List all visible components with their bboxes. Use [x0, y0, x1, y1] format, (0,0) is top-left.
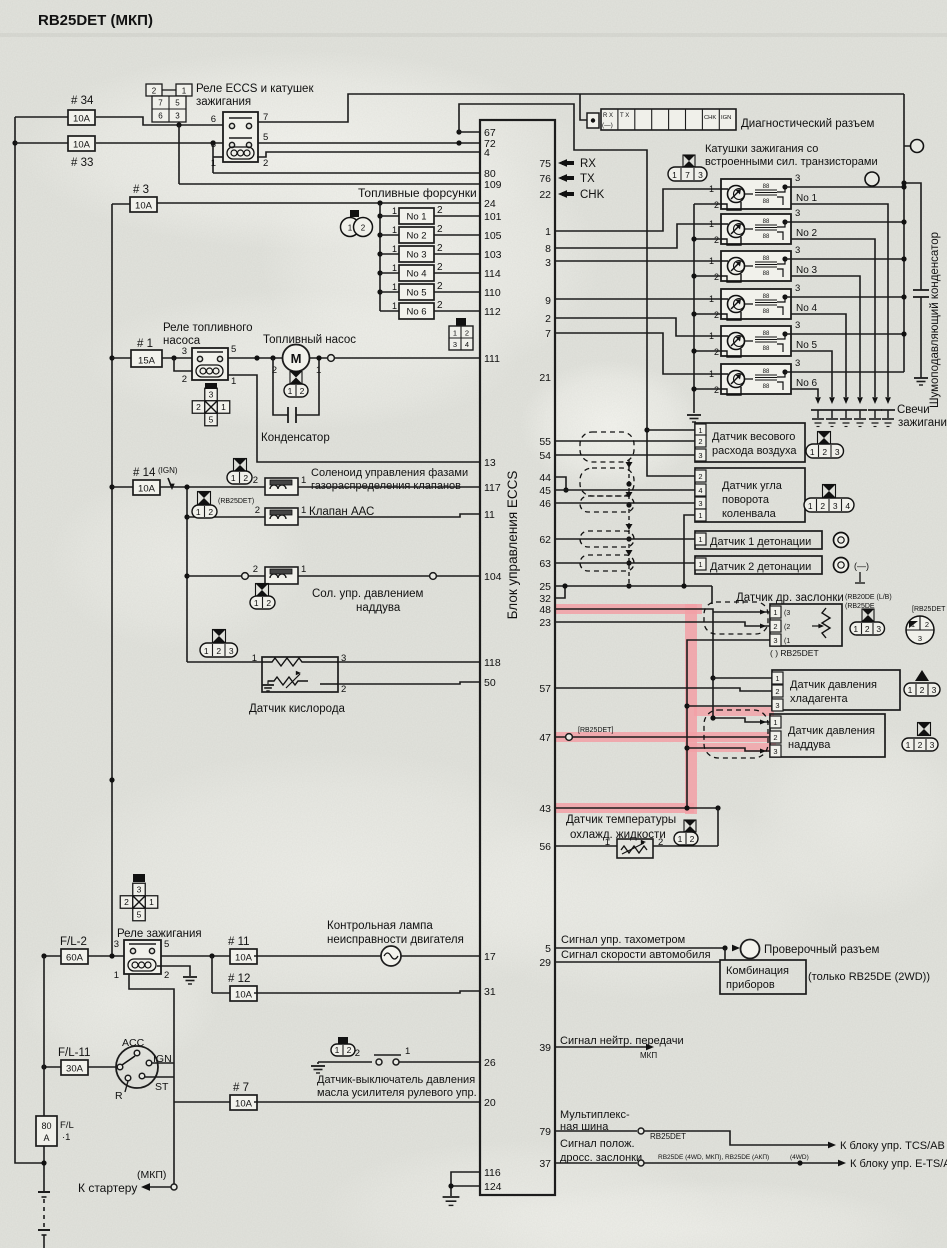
- wire injector No5 to ECU pin 110: [434, 291, 480, 293]
- svg-text:# 11: # 11: [228, 936, 250, 948]
- svg-text:Соленоид управления фазами: Соленоид управления фазами: [311, 467, 468, 479]
- connector icon injector harness: [350, 210, 359, 217]
- svg-text:2: 2: [437, 262, 443, 273]
- wire relay pin7 to top supply bus: [258, 94, 904, 122]
- ignition coil No5 with power transistor: [721, 326, 791, 356]
- svg-text:75: 75: [539, 158, 551, 170]
- wire relay K3 coil to ground: [157, 966, 190, 976]
- connector icon fuel pump relay pinout: [205, 388, 218, 401]
- svg-text:1: 1: [911, 620, 915, 629]
- svg-text:масла усилителя рулевого упр.: масла усилителя рулевого упр.: [317, 1087, 477, 1099]
- svg-text:МКП: МКП: [640, 1051, 657, 1060]
- inline ring connector on supply: [904, 145, 911, 147]
- injector No1: [380, 215, 399, 217]
- svg-text:2: 2: [243, 473, 248, 483]
- wire fuse #11 to MIL lamp: [254, 955, 381, 957]
- wire pin109 row: [179, 183, 480, 185]
- svg-text:3: 3: [932, 685, 937, 695]
- inline ring connector coil bus: [865, 172, 879, 186]
- switch Датчик-выключатель давления масла: [318, 1061, 372, 1063]
- node ECU ground joint: [448, 1183, 453, 1188]
- wire coil No1 pin3 to supply bus: [785, 186, 904, 188]
- svg-text:Свечи: Свечи: [897, 404, 930, 416]
- svg-text:1: 1: [301, 475, 306, 486]
- svg-text:3: 3: [918, 634, 922, 643]
- svg-text:RB25DET: RB25DET: [650, 1132, 686, 1141]
- svg-text:RB25DET (МКП): RB25DET (МКП): [38, 12, 153, 29]
- highlight boost sensor pin3 branch (pink): [686, 743, 776, 752]
- battery: [38, 1191, 50, 1193]
- node injector No4 supply junction: [377, 270, 382, 275]
- relay K1 Реле ECCS и катушек зажигания: [223, 112, 258, 162]
- wire coil No2 pin3 to supply bus: [785, 221, 904, 223]
- fuse #34: [68, 110, 95, 125]
- svg-text:Контрольная лампа: Контрольная лампа: [327, 920, 433, 932]
- svg-text:CHK: CHK: [580, 189, 605, 201]
- svg-text:Проверочный разъем: Проверочный разъем: [764, 944, 879, 956]
- svg-text:1: 1: [196, 507, 201, 517]
- svg-text:62: 62: [539, 534, 551, 546]
- svg-text:57: 57: [539, 683, 551, 695]
- wire pin80 row: [213, 172, 480, 174]
- svg-text:5: 5: [231, 344, 236, 355]
- svg-text:3: 3: [795, 358, 800, 369]
- wire coil No5 pin2 to ground bus: [694, 350, 721, 352]
- svg-text:1: 1: [149, 897, 154, 907]
- wire TPS pin1 feed: [713, 611, 770, 613]
- svg-text:117: 117: [484, 482, 501, 494]
- svg-text:2: 2: [255, 505, 260, 516]
- svg-text:зажигания: зажигания: [196, 96, 251, 108]
- svg-text:Датчик давления: Датчик давления: [790, 679, 877, 691]
- svg-text:3: 3: [698, 170, 703, 180]
- connector icon crank sensor: [823, 485, 836, 498]
- svg-text:5: 5: [263, 132, 268, 143]
- svg-text:114: 114: [484, 268, 501, 280]
- svg-text:54: 54: [539, 450, 551, 462]
- svg-text:30A: 30A: [66, 1063, 84, 1074]
- supply bus vertical to coils: [903, 94, 905, 372]
- node 4WD tap: [797, 1160, 802, 1165]
- svg-text:No 2: No 2: [796, 228, 818, 239]
- svg-text:TX: TX: [580, 173, 595, 185]
- wire F/L-2 to ignition relay: [88, 955, 124, 957]
- svg-text:(только RB25DE (2WD)): (только RB25DE (2WD)): [808, 971, 930, 983]
- sensor ground bus (TPS pin3 down): [687, 640, 770, 808]
- svg-text:1: 1: [908, 685, 913, 695]
- svg-text:2: 2: [437, 243, 443, 254]
- connector icon refrigerant sensor: [915, 670, 929, 681]
- svg-text:Шумоподавляющий конденсатор: Шумоподавляющий конденсатор: [929, 232, 941, 408]
- svg-text:неисправности двигателя: неисправности двигателя: [327, 934, 464, 946]
- svg-text:10A: 10A: [235, 989, 253, 1000]
- svg-text:No 4: No 4: [796, 303, 818, 314]
- svg-text:1: 1: [231, 473, 236, 483]
- highlight boost sensor pin1 branch (pink): [694, 707, 774, 716]
- svg-text:2: 2: [822, 447, 827, 457]
- svg-text:1: 1: [709, 219, 714, 229]
- svg-text:10A: 10A: [73, 139, 91, 150]
- svg-text:1: 1: [698, 426, 702, 435]
- svg-text:1: 1: [545, 226, 551, 238]
- svg-text:No 6: No 6: [796, 378, 818, 389]
- connector inline boost solenoid: [242, 573, 249, 580]
- capacitor C1 across pump motor: [273, 358, 288, 415]
- relay K2 coil: [196, 365, 223, 377]
- svg-text:88: 88: [763, 199, 770, 205]
- wire to fuel pump relay coil pin2: [174, 358, 192, 371]
- svg-text:1: 1: [709, 184, 714, 194]
- svg-text:2: 2: [124, 897, 129, 907]
- node junction #33 feed on left rail: [12, 140, 17, 145]
- connector icon VTC solenoid: [234, 459, 247, 472]
- svg-text:3: 3: [545, 257, 551, 269]
- svg-text:79: 79: [539, 1126, 551, 1138]
- svg-text:2: 2: [775, 687, 779, 696]
- svg-text:76: 76: [539, 173, 551, 185]
- svg-text:24: 24: [484, 198, 496, 210]
- svg-text:IGN: IGN: [721, 115, 731, 121]
- svg-text:1: 1: [698, 535, 702, 544]
- svg-text:Датчик 2 детонации: Датчик 2 детонации: [710, 561, 811, 573]
- svg-text:(2: (2: [784, 624, 790, 631]
- wire relay K2 pin1 to ECU pin13: [228, 375, 480, 462]
- svg-text:3: 3: [835, 447, 840, 457]
- wire battery positive rail (far left): [15, 117, 44, 1163]
- svg-text:# 7: # 7: [233, 1082, 249, 1094]
- node capacitor tap left: [270, 355, 275, 360]
- node coil No1 pin3: [782, 184, 787, 189]
- highlight vertical sensor feed (pink): [685, 604, 697, 814]
- wire R contact stub: [125, 1081, 128, 1092]
- svg-text:10A: 10A: [235, 1098, 253, 1109]
- wire coil No3 pin2 to ground bus: [694, 275, 721, 277]
- svg-text:4: 4: [845, 501, 850, 511]
- svg-text:7: 7: [545, 328, 551, 340]
- svg-text:21: 21: [539, 372, 551, 384]
- svg-text:1: 1: [182, 87, 187, 96]
- svg-text:5: 5: [175, 99, 180, 108]
- wire battery rail to F/L-2: [44, 955, 61, 957]
- svg-text:88: 88: [763, 256, 770, 262]
- IGN distribution rail: [186, 487, 188, 662]
- svg-text:2: 2: [437, 281, 443, 292]
- fuse #11: [230, 949, 257, 964]
- ground PS switch: [317, 1062, 319, 1064]
- ignition switch: [116, 1046, 158, 1088]
- ground coil bus: [687, 414, 701, 416]
- svg-text:116: 116: [484, 1167, 501, 1179]
- svg-text:2: 2: [698, 472, 702, 481]
- spark plug No4: [857, 397, 863, 404]
- svg-text:2: 2: [714, 310, 719, 320]
- svg-text:2: 2: [714, 385, 719, 395]
- wire ECU pin62 to knock sensor 1: [554, 538, 695, 540]
- svg-text:2: 2: [347, 1045, 352, 1055]
- wire ECU pin to coil No4 pin1: [554, 298, 721, 300]
- wire ECU pins 116 124 to ground: [451, 1172, 480, 1196]
- spark plug No1: [815, 397, 821, 404]
- svg-text:(—): (—): [854, 561, 869, 571]
- svg-text:1: 1: [392, 282, 397, 292]
- svg-text:# 1: # 1: [137, 338, 153, 350]
- ignition coil No1 with power transistor: [721, 179, 791, 209]
- svg-text:встроенными сил. транзисторами: встроенными сил. транзисторами: [705, 156, 878, 168]
- svg-text:3: 3: [775, 701, 779, 710]
- fuse #14: [133, 480, 160, 495]
- sensor Датчик угла поворота коленвала (crank angle): [695, 468, 805, 522]
- highlight net pin43 sensor ground (pink): [554, 803, 694, 813]
- svg-text:105: 105: [484, 230, 502, 242]
- check connector Проверочный разъем: [732, 945, 740, 952]
- connector icon fuel pump: [290, 372, 302, 384]
- node pin32 joint: [562, 583, 567, 588]
- wire ECU pin to coil No2 pin1: [554, 224, 721, 248]
- node injector No3 supply junction: [377, 251, 382, 256]
- wire ECU pin47 to boost sensor pin2: [554, 736, 770, 738]
- wire ECU pin43 sensor ground row: [554, 807, 718, 809]
- svg-text:109: 109: [484, 179, 502, 191]
- node injector No2 supply junction: [377, 232, 382, 237]
- svg-text:39: 39: [539, 1042, 551, 1054]
- svg-text:3: 3: [137, 885, 142, 895]
- svg-text:1: 1: [709, 331, 714, 341]
- svg-text:2: 2: [698, 437, 702, 446]
- wire fuse #1 to fuel pump relay: [162, 357, 192, 359]
- shield knock1 (dashed): [580, 531, 634, 547]
- sensor Датчик давления наддува (boost pressure): [770, 714, 885, 757]
- svg-text:88: 88: [763, 369, 770, 375]
- wire ECU pin45 to crank sensor pin4: [554, 489, 695, 491]
- wire relay K2 output to fuel pump motor: [228, 357, 283, 359]
- svg-text:1: 1: [335, 1045, 340, 1055]
- svg-text:5: 5: [137, 910, 142, 920]
- svg-text:1: 1: [204, 646, 209, 656]
- svg-text:8: 8: [545, 243, 551, 255]
- svg-text:5: 5: [164, 939, 169, 950]
- wire relay K3 output to fuses #11 #12: [161, 955, 230, 957]
- svg-text:7: 7: [158, 99, 163, 108]
- wire crank pin1 to shield ground: [684, 515, 695, 586]
- svg-text:63: 63: [539, 558, 551, 570]
- svg-text:R: R: [115, 1090, 123, 1102]
- fuse #12: [230, 986, 257, 1001]
- capacitor C2 Шумоподавляющий конденсатор: [913, 289, 929, 291]
- wire 5V to refrigerant pin1: [713, 677, 772, 679]
- wire ECU pin44 jog to pin45 row: [554, 477, 566, 490]
- svg-text:2: 2: [918, 740, 923, 750]
- svg-text:2: 2: [714, 200, 719, 210]
- svg-text:газораспределения клапанов: газораспределения клапанов: [311, 480, 461, 492]
- svg-text:1: 1: [672, 170, 677, 180]
- svg-text:2: 2: [208, 507, 213, 517]
- wire rail to fuse #1: [112, 357, 131, 359]
- svg-text:1: 1: [221, 402, 226, 412]
- valve AAC Клапан ААС: [265, 508, 298, 525]
- svg-text:1: 1: [392, 225, 397, 235]
- wire ECU pin to coil No1 pin1: [554, 189, 721, 231]
- wire tap to cluster: [724, 948, 726, 960]
- node capacitor tap right: [316, 355, 321, 360]
- fuse #1: [131, 350, 162, 367]
- node #12 tap: [209, 953, 214, 958]
- svg-text:2: 2: [263, 158, 268, 169]
- svg-text:1: 1: [301, 564, 306, 575]
- injector No4: [380, 272, 399, 274]
- svg-text:15A: 15A: [138, 355, 156, 366]
- svg-text:К блоку упр. E-TS/AB: К блоку упр. E-TS/AB: [850, 1158, 947, 1170]
- svg-text:29: 29: [539, 957, 551, 969]
- svg-text:Реле ECCS и катушек: Реле ECCS и катушек: [196, 83, 314, 95]
- svg-text:2: 2: [300, 386, 305, 396]
- wire coil No2 pin2 to ground bus: [694, 238, 721, 240]
- svg-text:4: 4: [484, 147, 490, 159]
- connector icon temp sensor: [684, 820, 696, 832]
- wire relay K3 pin1 to ignition switch IGN: [129, 974, 174, 1187]
- node coil No3 pin3: [782, 256, 787, 261]
- wire fuel pump motor to ECU pin111: [310, 357, 481, 359]
- wire injector No2 to ECU pin 105: [434, 234, 480, 236]
- svg-text:2: 2: [437, 205, 443, 216]
- wire ECU pin54 to MAF pin3: [554, 454, 695, 456]
- svg-text:104: 104: [484, 571, 502, 583]
- svg-text:4: 4: [465, 340, 469, 349]
- node injector No1 supply junction: [377, 213, 382, 218]
- node rail-to-#1 junction: [109, 355, 114, 360]
- svg-text:6: 6: [211, 114, 216, 125]
- svg-text:2: 2: [152, 87, 157, 96]
- wire battery rail to F/L-11: [44, 1066, 61, 1068]
- svg-text:2: 2: [465, 329, 469, 338]
- svg-text:(МКП): (МКП): [137, 1169, 166, 1181]
- ignition coil No3 with power transistor: [721, 251, 791, 281]
- node battery junction: [41, 1160, 46, 1165]
- svg-text:No 2: No 2: [406, 231, 426, 242]
- wire coil No3 to spark plug: [791, 276, 860, 397]
- wire coil No4 pin3 to supply bus: [785, 296, 904, 298]
- node refrigerant gnd tap: [684, 703, 689, 708]
- wire #33 fuse to ECCS relay pin3: [96, 142, 223, 144]
- connector icon knock 2: [834, 558, 849, 573]
- svg-text:(4WD): (4WD): [790, 1154, 809, 1161]
- wire injector No6 to ECU pin 112: [434, 310, 480, 312]
- svg-text:No 4: No 4: [406, 269, 426, 280]
- svg-text:7: 7: [685, 170, 690, 180]
- wire coil No1 pin2 to ground bus: [694, 203, 721, 205]
- node rail mid junction: [109, 777, 114, 782]
- wire 5V to boost pin1 (shielded): [713, 718, 770, 722]
- svg-text:(IGN): (IGN): [158, 466, 178, 475]
- node coil No4 pin3: [782, 294, 787, 299]
- svg-text:# 33: # 33: [71, 157, 93, 169]
- wire ECU pin32 jog to ground row: [554, 586, 565, 598]
- wire MIL lamp to ECU pin17: [401, 955, 480, 957]
- terminator stub knock ground: [859, 572, 861, 582]
- wire TPS shield drain: [711, 586, 713, 604]
- svg-text:3: 3: [833, 501, 838, 511]
- svg-text:No 3: No 3: [406, 250, 426, 261]
- fusible link 80A F/L-1: [43, 956, 45, 1116]
- svg-text:1: 1: [698, 560, 702, 569]
- svg-text:2: 2: [658, 837, 663, 848]
- sensor Датчик 2 детонации (knock 2): [695, 556, 822, 574]
- svg-text:3: 3: [930, 740, 935, 750]
- svg-text:Датчик 1 детонации: Датчик 1 детонации: [710, 536, 811, 548]
- svg-text:20: 20: [484, 1097, 496, 1109]
- svg-text:1: 1: [288, 386, 293, 396]
- wire coil No3 pin3 to supply bus: [785, 258, 904, 260]
- svg-text:1: 1: [392, 244, 397, 254]
- fuse #7: [230, 1095, 257, 1110]
- svg-text:Диагностический разъем: Диагностический разъем: [741, 118, 874, 130]
- svg-text:1: 1: [678, 834, 683, 844]
- secondary power rail (from F/L-2 line up to fuse #3): [111, 204, 113, 956]
- wire O2 to ECU pin50: [338, 682, 480, 684]
- node gnd vertical joint: [684, 805, 689, 810]
- wire coil No2 to spark plug: [791, 239, 875, 397]
- wire #34 fuse feed: [15, 116, 68, 118]
- wire fuse #3 to ECU pin24 (injector supply): [157, 202, 480, 204]
- svg-text:T X: T X: [620, 113, 629, 119]
- svg-text:1: 1: [775, 674, 779, 683]
- wire ECU pin25 shield ground row: [554, 585, 712, 587]
- svg-text:3: 3: [229, 646, 234, 656]
- svg-text:1: 1: [392, 301, 397, 311]
- sensor Датчик 1 детонации (knock 1): [695, 531, 822, 549]
- wire fuse #12 to ECU pin31: [254, 991, 480, 993]
- wire supply bus to diagnostic connector: [580, 94, 587, 120]
- svg-text:47: 47: [539, 732, 551, 744]
- svg-text:22: 22: [539, 189, 551, 201]
- svg-text:К блоку упр. TCS/AB: К блоку упр. TCS/AB: [840, 1140, 945, 1152]
- wire to starter arrow: [171, 1184, 177, 1190]
- svg-text:1: 1: [773, 718, 777, 727]
- spark plug No6: [885, 397, 891, 404]
- svg-text:1: 1: [453, 329, 457, 338]
- svg-text:Топливные форсунки: Топливные форсунки: [358, 186, 477, 200]
- svg-text:2: 2: [266, 598, 271, 608]
- svg-text:17: 17: [484, 951, 496, 963]
- svg-text:80: 80: [41, 1121, 51, 1131]
- svg-text:37: 37: [539, 1158, 551, 1170]
- svg-text:К стартеру: К стартеру: [78, 1181, 137, 1195]
- svg-text:1: 1: [231, 376, 236, 387]
- node relay coil tap: [171, 355, 176, 360]
- svg-text:наддува: наддува: [356, 602, 401, 614]
- svg-text:1: 1: [773, 608, 777, 617]
- connector inline near ECU: [430, 573, 437, 580]
- wire PS switch to ECU pin26: [399, 1061, 480, 1063]
- svg-text:M: M: [291, 351, 302, 366]
- svg-text:No 6: No 6: [406, 307, 426, 318]
- wire coil No4 pin2 to ground bus: [694, 313, 721, 315]
- RX TX CHK diagnostic arrows: [558, 159, 567, 167]
- svg-text:1: 1: [605, 837, 610, 848]
- svg-text:Датчик кислорода: Датчик кислорода: [249, 703, 346, 715]
- node injector No5 supply junction: [377, 289, 382, 294]
- connector icon boost solenoid: [256, 584, 269, 597]
- wire rail to fuse #3: [112, 203, 130, 205]
- svg-text:88: 88: [763, 184, 770, 190]
- wire O2 signal to ECU pin118: [338, 661, 480, 663]
- svg-text:3: 3: [773, 636, 777, 645]
- wire ECU pin to coil No6 pin1: [554, 333, 721, 374]
- shield TPS cable (dashed): [704, 602, 768, 634]
- coil ground bus: [693, 204, 695, 413]
- svg-text:3: 3: [453, 340, 457, 349]
- svg-text:3: 3: [182, 346, 187, 357]
- svg-text:88: 88: [763, 331, 770, 337]
